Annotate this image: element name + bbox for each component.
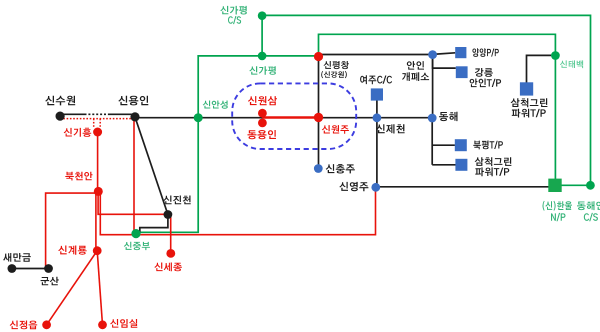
wire 신용인-신중부 xyxy=(133,117,135,234)
label 신계룡 xyxy=(58,246,86,255)
node 신임실 xyxy=(98,320,107,329)
node 신원삼 xyxy=(258,109,267,118)
node 신충주 xyxy=(314,164,323,173)
wire 신원삼-신원주 main red xyxy=(262,116,318,118)
substation 삼척그린파워T/P lower xyxy=(455,159,467,171)
node 동용인 xyxy=(258,119,267,128)
label 신중부 xyxy=(124,242,150,250)
wire 신기흥-북천안 xyxy=(97,132,99,191)
wire 신수원-신용인 dotted red xyxy=(60,118,135,120)
node 신평창 xyxy=(314,52,323,61)
wire 신태백 to 한울NP xyxy=(554,56,556,182)
label 신용인 xyxy=(118,96,148,106)
wire 신용인-신원삼 main xyxy=(135,117,262,119)
wire 신기흥 stub left xyxy=(93,119,95,128)
label 신제천 xyxy=(376,124,405,133)
label 신진천 xyxy=(163,196,190,205)
wire 신원주-동해 main xyxy=(319,117,433,119)
node 동해 xyxy=(428,114,437,123)
wire 한울NP to 동해안C/S xyxy=(555,184,591,186)
label 양양P/P xyxy=(472,48,498,57)
wire 신가평 to 신안성 to 신중부 xyxy=(136,56,262,232)
node 신안성 xyxy=(194,113,203,122)
wire 신평창-신원주-신충주 xyxy=(318,57,320,169)
node 군산 xyxy=(44,264,53,273)
node 신영주 xyxy=(371,183,380,192)
node 신용인 xyxy=(130,112,139,121)
wire 북천안-군산 xyxy=(46,193,97,266)
node 신원주 xyxy=(314,113,323,122)
wire 신진천-신중부 xyxy=(140,215,168,233)
label 한울2 xyxy=(551,213,566,221)
wire 신영주-한울NP xyxy=(376,186,549,188)
node 신세종 xyxy=(166,249,175,258)
label 신영주 xyxy=(339,182,368,191)
wire 안인-강릉안인TP xyxy=(433,55,456,69)
node 신태백 xyxy=(551,51,560,60)
node 북천안 xyxy=(94,187,103,196)
substation 여주C/C xyxy=(371,88,383,100)
wire 동해-삼척그린TP xyxy=(432,164,455,166)
wire 북천안-신계룡 xyxy=(95,191,97,250)
node 신계룡 xyxy=(93,246,102,255)
wire 동해-북평TP xyxy=(432,144,455,146)
label 신가평 xyxy=(249,66,276,75)
label 신가평CS-1 xyxy=(220,6,247,15)
label 신원삼 xyxy=(248,96,277,105)
metro area dashed boundary xyxy=(232,83,356,149)
label 새만금 xyxy=(3,253,31,262)
wire 신가평C/S to 신가평 xyxy=(261,15,263,56)
node 신정읍 xyxy=(42,320,51,329)
substation 북평T/P xyxy=(455,139,467,151)
wire 삼척그린upper-신태백 xyxy=(527,55,552,83)
label 개폐소 xyxy=(402,72,429,81)
node 신제천 xyxy=(373,113,382,122)
label 신원주 xyxy=(322,125,349,134)
label 신강원 xyxy=(321,71,347,78)
node 신진천 xyxy=(164,210,173,219)
label 신정읍 xyxy=(10,321,38,330)
label 북천안 xyxy=(65,172,92,181)
label 동해안2 xyxy=(584,213,598,221)
node 새만금 xyxy=(7,264,16,273)
wire 신수원-신용인 solid2 xyxy=(110,113,136,115)
wire 신평창 to 신태백 xyxy=(319,34,556,56)
wire 북천안-신세종 xyxy=(98,191,171,253)
wire 신수원-신용인 solid1 xyxy=(60,113,85,115)
substation 강릉안인T/P xyxy=(456,66,468,78)
label 여주C/C xyxy=(360,75,392,84)
wire 새만금-군산 xyxy=(12,268,49,270)
node 동해안C/S xyxy=(586,181,595,190)
substation 양양P/P xyxy=(455,47,466,58)
label 신태백 xyxy=(560,60,583,68)
label 군산 xyxy=(41,277,59,286)
substation 삼척그린파워T/P upper xyxy=(520,82,533,95)
label 강릉 xyxy=(475,68,493,77)
wire 북천안-신영주 xyxy=(100,187,375,234)
node 신가평C/S xyxy=(258,11,267,20)
node 신가평 xyxy=(258,52,267,61)
label 신가평CS-2 xyxy=(228,16,241,24)
label 삼척그린u1 xyxy=(511,98,548,107)
node 신기흥 xyxy=(93,128,102,137)
label 신안성 xyxy=(203,101,228,109)
wire 신가평 to 신평창 xyxy=(262,55,318,57)
label 삼척그린l1 xyxy=(475,157,512,166)
wire 신기흥 stub right xyxy=(99,119,101,128)
wire 신계룡-신임실 xyxy=(97,251,102,325)
label 삼척그린u2 xyxy=(512,109,546,118)
label 안인 xyxy=(407,61,424,70)
label 신평창 xyxy=(324,61,349,69)
node 신중부 xyxy=(131,229,140,238)
label 신기흥 xyxy=(64,128,91,137)
wire 신가평C/S to 동해안C/S xyxy=(262,15,590,185)
label 신세종 xyxy=(154,263,182,272)
wire 여주CC-신제천-신영주 xyxy=(376,101,378,188)
label 동용인 xyxy=(248,130,277,139)
label 신수원 xyxy=(45,96,75,106)
wire 신수원-신용인 dashed xyxy=(85,113,110,115)
label 안인T/P xyxy=(470,79,502,88)
label 삼척그린l2 xyxy=(475,167,509,176)
node 안인개폐소 xyxy=(428,50,437,59)
wire 신계룡-신정읍 xyxy=(47,251,98,325)
label 신충주 xyxy=(326,164,355,174)
label 동해 xyxy=(439,112,457,121)
node 신수원 xyxy=(56,112,65,121)
wire 안인-양양PP xyxy=(433,53,456,55)
wire 신평창-안인개폐소 xyxy=(319,54,433,56)
wire 동해-북평-삼척 branch xyxy=(431,118,433,165)
label 한울1 xyxy=(543,201,573,211)
substation (신)한울N/P xyxy=(548,179,561,192)
wire 안인-동해 xyxy=(432,55,434,118)
label 북평T/P xyxy=(473,141,503,150)
label 동해안1 xyxy=(577,201,600,210)
wire 신용인-신진천 diagonal xyxy=(135,117,168,215)
label 신임실 xyxy=(110,319,137,328)
